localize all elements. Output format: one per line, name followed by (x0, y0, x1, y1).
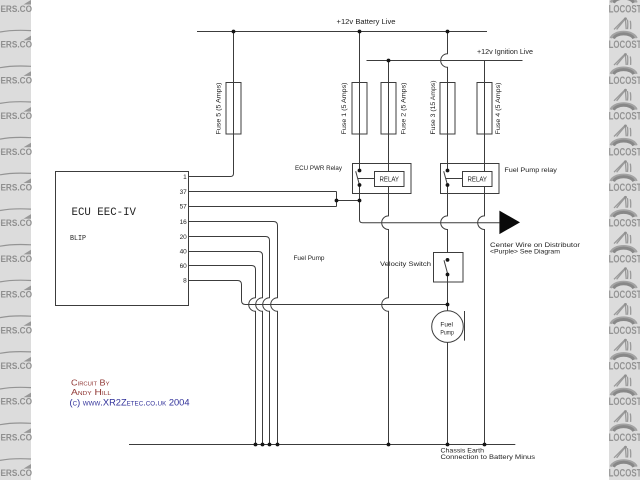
relay K2 switch bottom contact (446, 183, 450, 187)
wire fuse1 to relay1 switch (359, 134, 361, 171)
svg-text:40: 40 (180, 249, 188, 256)
junction earth pin16 (276, 443, 280, 447)
svg-text:LOCOST: LOCOST (609, 111, 640, 123)
wire velocity switch to fuel pump node (447, 275, 449, 311)
junction earth relay1 coil (387, 443, 391, 447)
svg-text:DERS.CO: DERS.CO (0, 4, 32, 14)
watermark left strip (0, 0, 32, 480)
junction battery/fuse3 (446, 30, 450, 34)
svg-text:DERS.CO: DERS.CO (0, 254, 32, 264)
velocity switch top contact (446, 258, 450, 262)
relay K1 coil link (358, 178, 375, 180)
svg-text:Pump: Pump (440, 330, 454, 337)
wire pin 57 (189, 206, 337, 208)
relay K2 switch top contact (446, 169, 450, 173)
svg-text:DERS.CO: DERS.CO (0, 75, 32, 85)
watermark right strip (609, 0, 640, 480)
distributor arrow triangle (499, 211, 520, 235)
junction earth pin20 (268, 443, 272, 447)
svg-text:Fuel: Fuel (440, 322, 453, 329)
svg-text:DERS.CO: DERS.CO (0, 290, 32, 300)
wire pin 60 to earth (189, 266, 256, 445)
wire fuse2 top (388, 61, 390, 83)
fuse F5 body (226, 83, 241, 135)
svg-text:DERS.CO: DERS.CO (0, 397, 32, 407)
relay K1 ECU PWR relay outer box (353, 164, 412, 194)
svg-text:LOCOST: LOCOST (609, 39, 640, 51)
svg-text:LOCOST: LOCOST (609, 289, 640, 301)
wire fork to relay1 output node (337, 200, 360, 202)
svg-text:Fuel Pump relay: Fuel Pump relay (504, 167, 557, 174)
wire fuse3 to relay2 switch (447, 134, 449, 171)
junction earth pin40 (261, 443, 265, 447)
svg-text:DERS.CO: DERS.CO (0, 147, 32, 157)
svg-text:Connection to Battery Minus: Connection to Battery Minus (441, 454, 536, 461)
svg-text:DERS.CO: DERS.CO (0, 361, 32, 371)
junction battery/fuse5 (232, 30, 236, 34)
relay K2 coil link (446, 178, 463, 180)
svg-text:DERS.CO: DERS.CO (0, 218, 32, 228)
svg-text:57: 57 (180, 204, 188, 211)
svg-text:LOCOST: LOCOST (609, 432, 640, 444)
wire fuse5 to ECU pin 1 (189, 134, 234, 177)
fuse F3 body (440, 83, 455, 135)
svg-text:16: 16 (180, 219, 188, 226)
ECU EEC-IV box (56, 172, 189, 306)
relay K2 fuel pump relay outer box (441, 164, 500, 194)
svg-text:DERS.CO: DERS.CO (0, 40, 32, 50)
wire chassis earth bus (129, 444, 515, 446)
junction battery/fuse1 (358, 30, 362, 34)
relay K1 switch arm (356, 171, 360, 185)
svg-text:DERS.CO: DERS.CO (0, 183, 32, 193)
junction fuel pump feed (446, 303, 450, 307)
velocity switch arm (444, 260, 448, 274)
svg-text:DERS.CO: DERS.CO (0, 325, 32, 335)
relay K2 switch arm (444, 171, 448, 185)
wire fuse4 to relay2 coil (484, 134, 486, 172)
wire pin 16 to earth (189, 222, 278, 445)
svg-text:Fuse 3 (15 Amps): Fuse 3 (15 Amps) (430, 81, 437, 135)
wire fuse4 top (484, 61, 486, 83)
velocity switch box (434, 253, 464, 283)
svg-text:LOCOST: LOCOST (609, 325, 640, 337)
wire fuel pump to chassis earth (447, 342, 449, 444)
fuel pump motor circle (432, 311, 464, 343)
wire +12v ignition live rail (367, 60, 523, 62)
junction earth fuel pump (446, 443, 450, 447)
junction relay1 output (358, 199, 362, 203)
svg-text:<Purple> See Diagram: <Purple> See Diagram (490, 248, 560, 255)
velocity switch bottom contact (446, 273, 450, 277)
fuse F4 body (477, 83, 492, 135)
svg-text:Circuit By: Circuit By (71, 379, 110, 388)
svg-text:LOCOST: LOCOST (609, 75, 640, 87)
wire relay1 coil to chassis earth (hops) (382, 187, 389, 445)
junction earth pin60 (254, 443, 258, 447)
relay K1 coil box (375, 172, 405, 187)
svg-text:Andy Hill: Andy Hill (71, 388, 111, 397)
wire fuse5 top (233, 32, 235, 83)
svg-text:LOCOST: LOCOST (609, 253, 640, 265)
svg-text:Velocity Switch: Velocity Switch (380, 261, 432, 268)
svg-text:8: 8 (183, 278, 187, 285)
wire fuse2 to relay1 coil (388, 134, 390, 172)
wire pin 40 to earth (189, 252, 263, 445)
svg-text:Fuel Pump: Fuel Pump (294, 255, 325, 262)
svg-text:+12v Ignition Live: +12v Ignition Live (477, 49, 533, 56)
svg-text:37: 37 (180, 189, 188, 196)
fuse F1 body (352, 83, 367, 135)
wire pin 37 (189, 191, 337, 193)
svg-text:LOCOST: LOCOST (609, 182, 640, 194)
wire relay2 coil to chassis earth (hop) (478, 187, 485, 445)
svg-text:DERS.CO: DERS.CO (0, 111, 32, 121)
wire fuse1 top (359, 32, 361, 83)
wire pin 20 to earth (189, 237, 270, 445)
svg-text:ECU EEC-IV: ECU EEC-IV (72, 207, 137, 219)
junction ignition/fuse2 (387, 59, 391, 63)
svg-text:LOCOST: LOCOST (609, 146, 640, 158)
junction fork node (335, 199, 339, 203)
svg-text:BLIP: BLIP (70, 235, 86, 243)
svg-text:60: 60 (180, 263, 188, 270)
relay K1 switch top contact (358, 169, 362, 173)
svg-text:1: 1 (183, 174, 187, 181)
svg-text:LOCOST: LOCOST (609, 4, 640, 16)
wire relay1 output node and distributor feed (360, 185, 500, 223)
relay K2 coil box (463, 172, 493, 187)
wire fuse3 top with hop over ignition rail (441, 32, 448, 83)
svg-text:ECU PWR Relay: ECU PWR Relay (295, 165, 343, 172)
svg-text:20: 20 (180, 234, 188, 241)
junction earth relay2 coil (483, 443, 487, 447)
wire pin 8 to fuel pump feed line (189, 281, 448, 305)
svg-text:Fuse 2 (5 Amps): Fuse 2 (5 Amps) (401, 83, 408, 135)
wire relay2 switch to velocity switch (hop) (441, 185, 448, 253)
svg-text:RELAY: RELAY (380, 175, 400, 184)
svg-text:RELAY: RELAY (468, 175, 488, 184)
svg-text:(c) www.XR2Zetec.co.uk 2004: (c) www.XR2Zetec.co.uk 2004 (70, 397, 190, 407)
svg-text:Fuse 1 (5 Amps): Fuse 1 (5 Amps) (341, 83, 348, 135)
svg-text:Fuse 5 (5 Amps): Fuse 5 (5 Amps) (215, 83, 222, 135)
svg-text:LOCOST: LOCOST (609, 468, 640, 480)
relay K1 switch bottom contact (358, 183, 362, 187)
svg-text:DERS.CO: DERS.CO (0, 432, 32, 442)
wire +12v battery live rail (197, 31, 487, 33)
svg-text:+12v Battery Live: +12v Battery Live (337, 19, 396, 26)
svg-text:Fuse 4 (5 Amps): Fuse 4 (5 Amps) (495, 83, 502, 135)
wire pin37/57 fork join (336, 192, 338, 207)
fuel pump side mark (464, 311, 466, 341)
svg-text:LOCOST: LOCOST (609, 218, 640, 230)
fuse F2 body (381, 83, 396, 135)
svg-text:LOCOST: LOCOST (609, 361, 640, 373)
svg-text:DERS.CO: DERS.CO (0, 468, 32, 478)
svg-text:LOCOST: LOCOST (609, 396, 640, 408)
